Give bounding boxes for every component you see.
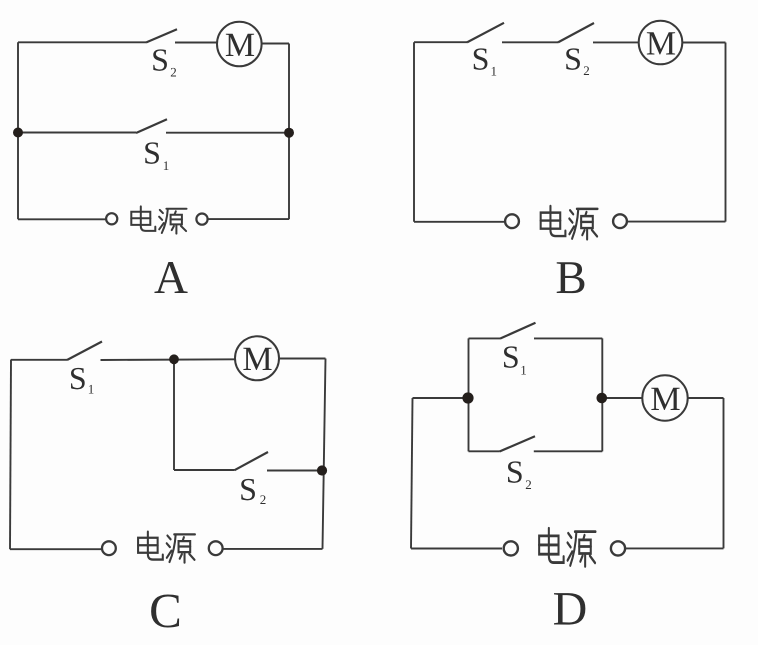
switch S1 lever (C): [67, 342, 102, 361]
motor M circle (A): [217, 22, 262, 67]
wire: D right vertical: [723, 398, 725, 548]
svg-text:S: S: [502, 339, 520, 375]
svg-text:S: S: [151, 42, 169, 78]
switch S2 lever (C): [235, 452, 269, 470]
wire: A bottom left segment: [18, 218, 106, 220]
svg-text:1: 1: [88, 382, 95, 397]
terminal: D battery right: [611, 541, 625, 555]
wire: B bottom left segment: [414, 221, 505, 223]
svg-text:M: M: [650, 381, 680, 418]
svg-text:1: 1: [520, 363, 527, 378]
wire: A left vertical: [17, 42, 19, 219]
wire: B motor to right corner: [683, 42, 726, 44]
wire: A motor to right corner: [262, 43, 290, 45]
svg-text:S: S: [143, 135, 161, 171]
wire: D bottom right segment: [626, 547, 724, 549]
terminal: A battery right: [196, 214, 207, 225]
svg-text:S: S: [564, 41, 582, 77]
terminal: D battery left: [504, 541, 518, 555]
switch S1 lever (D): [500, 323, 536, 339]
node: C top junction dot: [169, 354, 179, 364]
svg-text:S: S: [472, 40, 490, 76]
label 电源 (C): [138, 532, 195, 563]
terminal: A battery left: [106, 213, 117, 224]
wire: C left vertical: [10, 360, 11, 550]
wire: C top left segment: [11, 359, 67, 361]
wire: B bottom right segment: [627, 221, 726, 223]
switch S1 lever: [136, 119, 167, 133]
wire: C bottom right segment: [224, 548, 323, 550]
wire: C branch horizontal to switch: [174, 469, 235, 471]
switch S2 lever (B): [558, 23, 594, 42]
wire: B right vertical: [725, 43, 727, 222]
wire: D block right vertical: [601, 338, 603, 451]
svg-text:S: S: [239, 471, 257, 507]
wire: C branch vertical from junction: [173, 360, 175, 471]
wire: B top left segment: [414, 41, 467, 43]
wire: C right vertical: [323, 359, 326, 549]
svg-text:M: M: [242, 341, 272, 378]
svg-text:1: 1: [491, 64, 498, 79]
svg-text:B: B: [555, 252, 586, 304]
switch S2 lever (D): [500, 436, 536, 451]
switch S2 lever: [146, 29, 177, 42]
wire: C after S1 to junction: [101, 358, 236, 361]
terminal: C battery left: [102, 541, 116, 555]
node: D right junction dot: [597, 393, 608, 404]
wire: A right vertical: [288, 44, 290, 220]
wire: D left outer vertical: [411, 398, 413, 549]
wire: B left vertical: [413, 42, 415, 222]
wire: A middle branch with switch S1: [18, 132, 136, 134]
wire: C motor to right corner: [279, 358, 326, 360]
wire: C bottom left segment: [10, 548, 101, 550]
svg-text:C: C: [149, 583, 182, 638]
wire: B after S2 to motor: [593, 41, 639, 43]
wire: D bottom branch right segment: [534, 450, 603, 452]
wire: B between switches: [502, 41, 558, 43]
wire: C after S2 to right dot: [267, 470, 321, 472]
svg-text:M: M: [646, 25, 676, 62]
node: A left junction dot: [13, 128, 23, 138]
wire: A top right segment to motor: [175, 42, 217, 44]
wire: A top left segment: [18, 41, 146, 43]
motor M circle (C): [235, 336, 279, 380]
svg-text:1: 1: [163, 158, 170, 173]
motor M circle (B): [639, 21, 683, 65]
terminal: B battery right: [613, 214, 627, 228]
label 电源 (D): [539, 528, 595, 566]
node: C right junction dot: [317, 465, 327, 475]
wire: D bottom branch left segment: [469, 450, 500, 452]
svg-text:D: D: [553, 583, 588, 636]
wire: A bottom right segment: [208, 218, 289, 220]
svg-text:S: S: [69, 360, 87, 396]
svg-text:2: 2: [583, 63, 590, 78]
wire: D motor to right corner: [688, 397, 724, 399]
wire: D block left vertical: [468, 338, 470, 451]
motor M circle (D): [642, 375, 687, 420]
svg-text:M: M: [225, 27, 255, 64]
svg-text:S: S: [506, 454, 524, 490]
terminal: B battery left: [505, 214, 519, 228]
wire: D top branch left segment: [469, 337, 501, 339]
wire: D left stub to dot: [413, 397, 469, 399]
switch S1 lever (B): [467, 23, 504, 43]
node: D left junction dot: [462, 392, 473, 403]
svg-text:2: 2: [260, 492, 267, 507]
label 电源 (B): [541, 206, 598, 239]
terminal: C battery right: [209, 541, 223, 555]
wire: D bottom left segment: [411, 548, 502, 550]
svg-text:2: 2: [525, 477, 532, 492]
node: A right junction dot: [284, 128, 294, 138]
wire: D top branch right segment: [534, 337, 602, 339]
svg-text:2: 2: [170, 65, 177, 80]
label 电源 (A): [131, 206, 186, 233]
wire: A middle right segment: [166, 132, 289, 134]
wire: D right dot to motor: [602, 397, 642, 399]
svg-text:A: A: [154, 252, 188, 304]
